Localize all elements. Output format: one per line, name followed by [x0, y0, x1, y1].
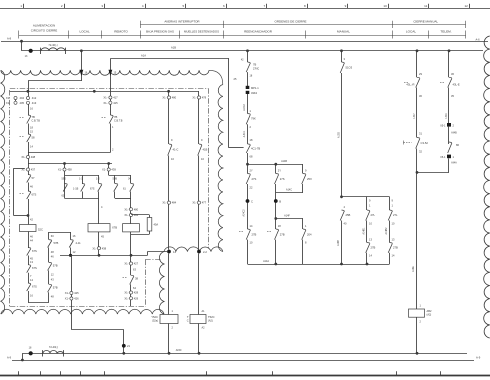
svg-text:1-2: 1-2	[96, 178, 100, 181]
contact 57B (x48.9 - 3)	[48, 284, 50, 286]
svg-text:67S: 67S	[32, 249, 37, 253]
svg-text:429: 429	[134, 296, 139, 300]
bypass stub branch x13.6	[14, 168, 25, 170]
svg-text:27S: 27S	[280, 177, 285, 181]
svg-text:7B: 7B	[114, 115, 117, 119]
svg-text:67S: 67S	[32, 284, 37, 288]
group split	[109, 175, 131, 177]
svg-text:CIRCUITO CIERRE: CIRCUITO CIERRE	[31, 29, 58, 33]
fuse disconnect arrow bottom	[29, 351, 33, 355]
sheet ref 49K2	[246, 91, 250, 94]
svg-text:X1-: X1-	[124, 207, 128, 211]
group rejoin	[64, 184, 66, 199]
branch x367	[366, 197, 368, 210]
svg-text:C: C	[187, 320, 189, 323]
resistor 45A shunt	[131, 214, 150, 216]
svg-text:72-40(-): 72-40(-)	[48, 43, 57, 47]
svg-text:A-6: A-6	[475, 37, 480, 41]
svg-text:50B: 50B	[113, 178, 118, 181]
svg-text:I-84A: I-84A	[451, 162, 457, 165]
svg-text:A14B1: A14B1	[363, 227, 366, 235]
sheet ref dot B	[274, 199, 278, 203]
link x110 to x28 at y152.5	[28, 152, 110, 154]
coil 52 (manual close)	[409, 309, 425, 317]
svg-text:27NC: 27NC	[253, 67, 259, 70]
bottom bus A14A	[248, 264, 390, 266]
terminal X1-478	[198, 91, 200, 96]
svg-text:A14C2: A14C2	[243, 209, 246, 217]
svg-text:AB2: AB2	[427, 309, 432, 313]
svg-text:58: 58	[32, 136, 35, 140]
svg-text:484: 484	[172, 201, 177, 205]
svg-text:7B: 7B	[253, 63, 256, 67]
terminal X1-404 / X1-412 row	[28, 91, 30, 96]
svg-text:I/5-1: I/5-1	[440, 155, 446, 159]
svg-text:45A: 45A	[154, 223, 159, 227]
svg-text:4C1-7B: 4C1-7B	[251, 147, 260, 151]
svg-text:41-C: 41-C	[173, 148, 179, 152]
svg-text:426: 426	[74, 297, 79, 301]
svg-text:A14F: A14F	[284, 214, 290, 217]
pins below coil	[28, 232, 30, 248]
svg-text:X1-: X1-	[162, 96, 166, 100]
svg-text:72-40(-): 72-40(-)	[49, 345, 58, 349]
svg-text:X1-: X1-	[124, 296, 128, 300]
svg-text:A14B2: A14B2	[385, 227, 388, 235]
sheet ref I/5-1 2	[447, 123, 451, 127]
contact 27S (x275.8)	[275, 173, 277, 175]
stub to lower bus	[70, 248, 72, 256]
contact 7B C.B.T.B (x28)	[28, 114, 30, 116]
coil Y52C	[160, 315, 178, 324]
svg-text:52C: 52C	[38, 228, 43, 232]
pin 16	[28, 104, 30, 115]
svg-text:(52a): (52a)	[152, 320, 158, 323]
svg-text:67S: 67S	[32, 193, 37, 197]
svg-text:12: 12	[464, 4, 468, 8]
contact 204	[302, 228, 304, 230]
right page edge cloud	[484, 36, 490, 338]
contact 7B 27NC (x247.5)	[247, 61, 249, 63]
bottom link of left chain	[28, 291, 30, 303]
svg-text:A1O3: A1O3	[337, 131, 340, 138]
group rejoin	[114, 192, 116, 199]
contact 4C1-7B	[247, 143, 249, 145]
cloud exit dot 14	[167, 250, 171, 254]
pin 45	[98, 232, 100, 247]
svg-text:57B: 57B	[53, 286, 58, 290]
long wire x341 feed	[340, 49, 343, 52]
group split bracket	[65, 175, 100, 177]
svg-text:38: 38	[135, 277, 138, 281]
bus A14B	[246, 163, 249, 166]
dash-dot boundary peninsula vertical	[145, 260, 147, 305]
terminals X1-480 X1-482	[130, 198, 132, 207]
svg-text:X1-: X1-	[6, 96, 10, 100]
coil T52C	[190, 315, 206, 324]
contact C3-52	[416, 137, 418, 139]
dash-dot boundary right	[208, 88, 210, 248]
junction y172.4	[416, 171, 419, 174]
bottom bus	[22, 353, 467, 355]
svg-text:MUELLES DESTENSADOS: MUELLES DESTENSADOS	[184, 30, 219, 34]
wire to coil junction	[28, 199, 30, 225]
svg-text:X1-: X1-	[124, 262, 128, 266]
svg-text:C3-52: C3-52	[421, 141, 429, 145]
svg-text:A-9: A-9	[7, 355, 12, 359]
svg-text:ORDENES DE CIERRE: ORDENES DE CIERRE	[274, 19, 306, 23]
svg-text:I/5-1: I/5-1	[440, 124, 446, 128]
svg-text:X1-: X1-	[65, 297, 69, 301]
svg-text:438: 438	[67, 168, 72, 172]
branch x389.5	[389, 197, 391, 210]
svg-text:43L,-R: 43L,-R	[406, 82, 414, 86]
cloud boundary bottom edge of peninsula	[164, 247, 223, 252]
wire drop into cloud at x110 (from A1A)	[110, 59, 112, 97]
cloud boundary peninsula left descent	[159, 252, 164, 315]
svg-text:27S: 27S	[252, 177, 257, 181]
header bracket line	[19, 35, 466, 37]
junction dots on interior bus	[27, 90, 30, 93]
svg-text:86: 86	[456, 143, 459, 147]
svg-text:27B: 27B	[252, 232, 257, 236]
svg-text:X1-: X1-	[192, 201, 196, 205]
svg-text:480: 480	[172, 96, 177, 100]
svg-text:X1-: X1-	[162, 201, 166, 205]
svg-text:427: 427	[134, 262, 139, 266]
bus A14F	[274, 217, 277, 220]
branch x48.9	[48, 232, 50, 240]
svg-text:438: 438	[102, 246, 107, 250]
svg-text:27L: 27L	[393, 213, 398, 217]
terminal X1-484	[168, 156, 170, 202]
svg-text:67S: 67S	[90, 187, 95, 190]
wire coil X5B to bus	[130, 232, 132, 255]
bus at y196.8	[340, 195, 343, 198]
svg-text:2Y: 2Y	[250, 169, 253, 173]
cloud interior top bus	[10, 91, 199, 93]
svg-text:27B: 27B	[393, 246, 398, 250]
svg-text:(A2): (A2)	[427, 314, 432, 317]
svg-text:X1-: X1-	[58, 168, 62, 172]
cloud boundary top edge	[1, 70, 209, 75]
right ladder feed x417	[416, 49, 419, 52]
branch x303 lower	[302, 219, 304, 230]
wire A1A	[110, 58, 229, 60]
contact 41-C	[168, 143, 170, 145]
contact 57B (x48.9 - 2)	[48, 262, 50, 264]
jog to bottom bus	[71, 329, 123, 331]
cloud boundary bottom edge	[1, 309, 164, 314]
svg-text:2Y: 2Y	[278, 169, 281, 173]
sheet ref dot C	[246, 199, 250, 203]
svg-text:X1-: X1-	[65, 291, 69, 295]
svg-text:413: 413	[32, 101, 37, 105]
wire drop into cloud at x81	[80, 49, 83, 52]
terminal X1-480	[168, 91, 170, 96]
contact 86	[448, 141, 450, 143]
svg-text:ALIMENTACION: ALIMENTACION	[33, 23, 55, 27]
svg-text:417: 417	[113, 96, 118, 100]
wire to coil X7B	[98, 198, 100, 223]
svg-text:1-1: 1-1	[79, 178, 83, 181]
contact (x64.5)	[64, 183, 66, 185]
right ladder feed x449	[448, 49, 451, 52]
contact 27L (x367)	[366, 209, 368, 211]
node junction on A-8	[20, 40, 23, 43]
sheet ref I/5-1 1	[447, 155, 451, 159]
terminals X1-428 X1-429	[130, 284, 132, 291]
bus at y163.5	[28, 163, 112, 165]
contact 67S (x28 upper)	[28, 190, 30, 192]
svg-text:LOCAL: LOCAL	[406, 30, 416, 34]
svg-text:X1-: X1-	[102, 168, 106, 172]
contact 67S (x28 chain 1)	[28, 247, 30, 249]
svg-text:57B: 57B	[53, 264, 58, 268]
svg-text:A-6C2: A-6C2	[243, 104, 246, 111]
contact 38 (x131)	[130, 275, 132, 277]
contact 7B C.B.T.B (x110)	[110, 114, 112, 116]
fuse disconnect arrow top	[29, 49, 33, 53]
branch x275.8	[274, 163, 277, 166]
svg-text:X1-: X1-	[92, 246, 96, 250]
svg-text:67S: 67S	[32, 266, 37, 270]
svg-text:7B: 7B	[32, 115, 35, 119]
pin 14	[28, 142, 30, 156]
terminal X1-477	[198, 156, 200, 202]
svg-text:425: 425	[74, 291, 79, 295]
contact (x115)	[114, 183, 116, 185]
pins	[48, 270, 50, 284]
svg-text:I-309: I-309	[446, 113, 448, 119]
svg-text:A14B: A14B	[337, 240, 340, 246]
contact 41B	[198, 143, 200, 145]
svg-text:482: 482	[134, 213, 139, 217]
cloud boundary top-right corner	[209, 70, 223, 84]
pin	[28, 183, 30, 192]
svg-text:A1B: A1B	[171, 46, 176, 50]
contact 57 (x28)	[28, 174, 30, 176]
svg-text:REENGANCHADOR: REENGANCHADOR	[244, 30, 273, 34]
svg-text:X1-: X1-	[21, 155, 25, 159]
cloud exit dot 2-2	[197, 250, 201, 254]
svg-text:AVERIAS INTERRUPTOR: AVERIAS INTERRUPTOR	[164, 19, 200, 23]
svg-text:428: 428	[134, 291, 139, 295]
svg-text:I-84B: I-84B	[451, 132, 457, 135]
wire A-8 top bus	[1, 41, 488, 43]
contact 43L-E	[448, 76, 450, 78]
svg-text:25X: 25X	[307, 177, 312, 181]
svg-text:1-1B: 1-1B	[73, 187, 79, 190]
svg-text:C.B.T.B: C.B.T.B	[114, 119, 123, 122]
svg-text:57B: 57B	[54, 241, 59, 245]
cloud boundary right edge	[218, 85, 223, 252]
cloud boundary left edge	[1, 70, 5, 314]
svg-text:A-6C1: A-6C1	[243, 130, 246, 137]
svg-text:21: 21	[127, 344, 130, 348]
svg-text:415: 415	[113, 101, 118, 105]
svg-text:41B: 41B	[203, 148, 208, 152]
terminal X1-438 (below coil)	[97, 247, 100, 250]
svg-text:B: B	[279, 199, 281, 203]
svg-text:439: 439	[111, 168, 116, 172]
terminal X1-438 (group)	[64, 164, 66, 169]
contact 4-11 (x70.5)	[70, 239, 72, 241]
coil X7B	[88, 224, 110, 232]
svg-text:REMOTO: REMOTO	[114, 30, 128, 34]
top ruler ticks and column numbers 1-12	[23, 4, 25, 8]
contact 58 (x28)	[28, 133, 30, 135]
svg-text:Y52C: Y52C	[151, 315, 158, 319]
coil X5B	[123, 224, 140, 232]
svg-text:25B: 25B	[346, 213, 351, 217]
svg-text:480: 480	[134, 207, 139, 211]
svg-text:2-2: 2-2	[203, 250, 207, 254]
svg-text:11: 11	[424, 4, 427, 8]
pins	[28, 124, 30, 135]
svg-text:I-307: I-307	[414, 113, 416, 119]
svg-text:TELEM.: TELEM.	[440, 30, 451, 34]
svg-text:59D: 59D	[62, 178, 67, 181]
svg-text:A150: A150	[176, 349, 182, 352]
pins	[28, 256, 30, 265]
svg-text:T52C: T52C	[208, 315, 215, 319]
top border ruler line	[0, 8, 490, 10]
wire below coil to bottom bus	[416, 317, 418, 353]
svg-text:57: 57	[32, 176, 35, 180]
coil 52C	[20, 225, 37, 232]
svg-text:BAJA PRESION GAS: BAJA PRESION GAS	[146, 30, 174, 34]
terminal X1-427	[130, 255, 132, 262]
terminal X1-417 / X1-415	[109, 96, 112, 99]
contact 1-1B (x82)	[82, 183, 84, 185]
svg-text:204: 204	[307, 232, 312, 236]
bottom stub	[48, 292, 50, 302]
svg-text:A14B: A14B	[281, 160, 287, 163]
branch x303 upper	[302, 164, 304, 173]
header group ticks	[140, 21, 142, 28]
svg-text:MANUAL: MANUAL	[337, 30, 350, 34]
wire A1B bus	[22, 50, 484, 52]
terminal X1-439 (group)	[108, 164, 110, 169]
header cell boundary ticks	[18, 31, 20, 39]
svg-text:(A2): (A2)	[208, 320, 213, 323]
contact 25X	[302, 173, 304, 175]
svg-text:27L: 27L	[371, 213, 376, 217]
svg-text:X1-: X1-	[103, 96, 107, 100]
svg-text:43L-E: 43L-E	[453, 82, 460, 86]
branch x71.4 to terminals X1-425/426	[71, 255, 73, 291]
branch x70.5	[70, 232, 72, 240]
bottom ruler ticks	[18, 371, 20, 375]
pins	[48, 248, 50, 263]
svg-text:477: 477	[202, 201, 207, 205]
svg-text:14: 14	[173, 250, 176, 254]
svg-text:437: 437	[31, 168, 36, 172]
svg-text:438: 438	[31, 155, 36, 159]
svg-text:51O3: 51O3	[346, 66, 353, 70]
dash-dot boundary top	[10, 88, 208, 90]
contact 43L-R	[416, 76, 418, 78]
svg-text:C: C	[251, 199, 253, 203]
terminal X1-437	[28, 164, 30, 169]
disconnect mark 21	[122, 344, 126, 348]
dash-dot boundary peninsula horizontal	[145, 259, 160, 261]
contact 57B (x48.9 - 1)	[48, 239, 50, 241]
contact 67S (x99)	[98, 183, 100, 185]
svg-text:X1-: X1-	[103, 101, 107, 105]
svg-text:404: 404	[19, 96, 24, 100]
svg-text:405: 405	[19, 101, 24, 105]
dash-dot boundary left	[9, 90, 11, 306]
sheet ref MP1-1	[246, 86, 250, 89]
svg-text:LOCAL: LOCAL	[80, 30, 90, 34]
svg-text:A-8: A-8	[7, 37, 12, 41]
svg-text:X7B: X7B	[112, 226, 117, 230]
svg-text:478: 478	[202, 96, 207, 100]
svg-text:27B: 27B	[371, 246, 376, 250]
svg-text:10: 10	[383, 4, 387, 8]
contact 67S (x28 chain 3)	[28, 282, 30, 284]
svg-text:X1-: X1-	[124, 291, 128, 295]
svg-text:X1-: X1-	[192, 96, 196, 100]
svg-text:C.B.T.B: C.B.T.B	[32, 119, 41, 122]
svg-text:CIERRE MANUAL: CIERRE MANUAL	[413, 19, 438, 23]
bottom return wire A-9	[12, 360, 474, 362]
svg-text:A1A: A1A	[141, 54, 146, 58]
svg-text:MP1-1: MP1-1	[251, 86, 259, 90]
svg-text:27B: 27B	[280, 232, 285, 236]
pins	[28, 273, 30, 283]
contact 51O3	[341, 61, 343, 63]
svg-text:A14A: A14A	[263, 260, 269, 263]
svg-text:4-11: 4-11	[76, 241, 82, 245]
svg-text:A14C: A14C	[286, 189, 292, 192]
middle ladder feed	[246, 49, 249, 52]
svg-text:X1-: X1-	[124, 213, 128, 217]
header group line	[140, 24, 465, 26]
dash-dot boundary bottom	[10, 306, 146, 308]
contact 27L (x389.5)	[389, 209, 391, 211]
svg-text:A14E: A14E	[412, 266, 415, 272]
svg-text:412: 412	[32, 96, 37, 100]
svg-text:49K2: 49K2	[251, 91, 258, 95]
terminal X1-438	[26, 155, 29, 158]
pi-link between x48.9 and x70.5	[49, 232, 71, 234]
svg-text:A-9: A-9	[476, 356, 481, 360]
lower interior bus	[60, 255, 148, 257]
bottom border line	[0, 375, 490, 377]
svg-text:X1-: X1-	[6, 101, 10, 105]
contact 67S (x28 chain 2)	[28, 264, 30, 266]
contact 61 (x131)	[130, 183, 132, 185]
svg-text:79K: 79K	[251, 117, 256, 121]
